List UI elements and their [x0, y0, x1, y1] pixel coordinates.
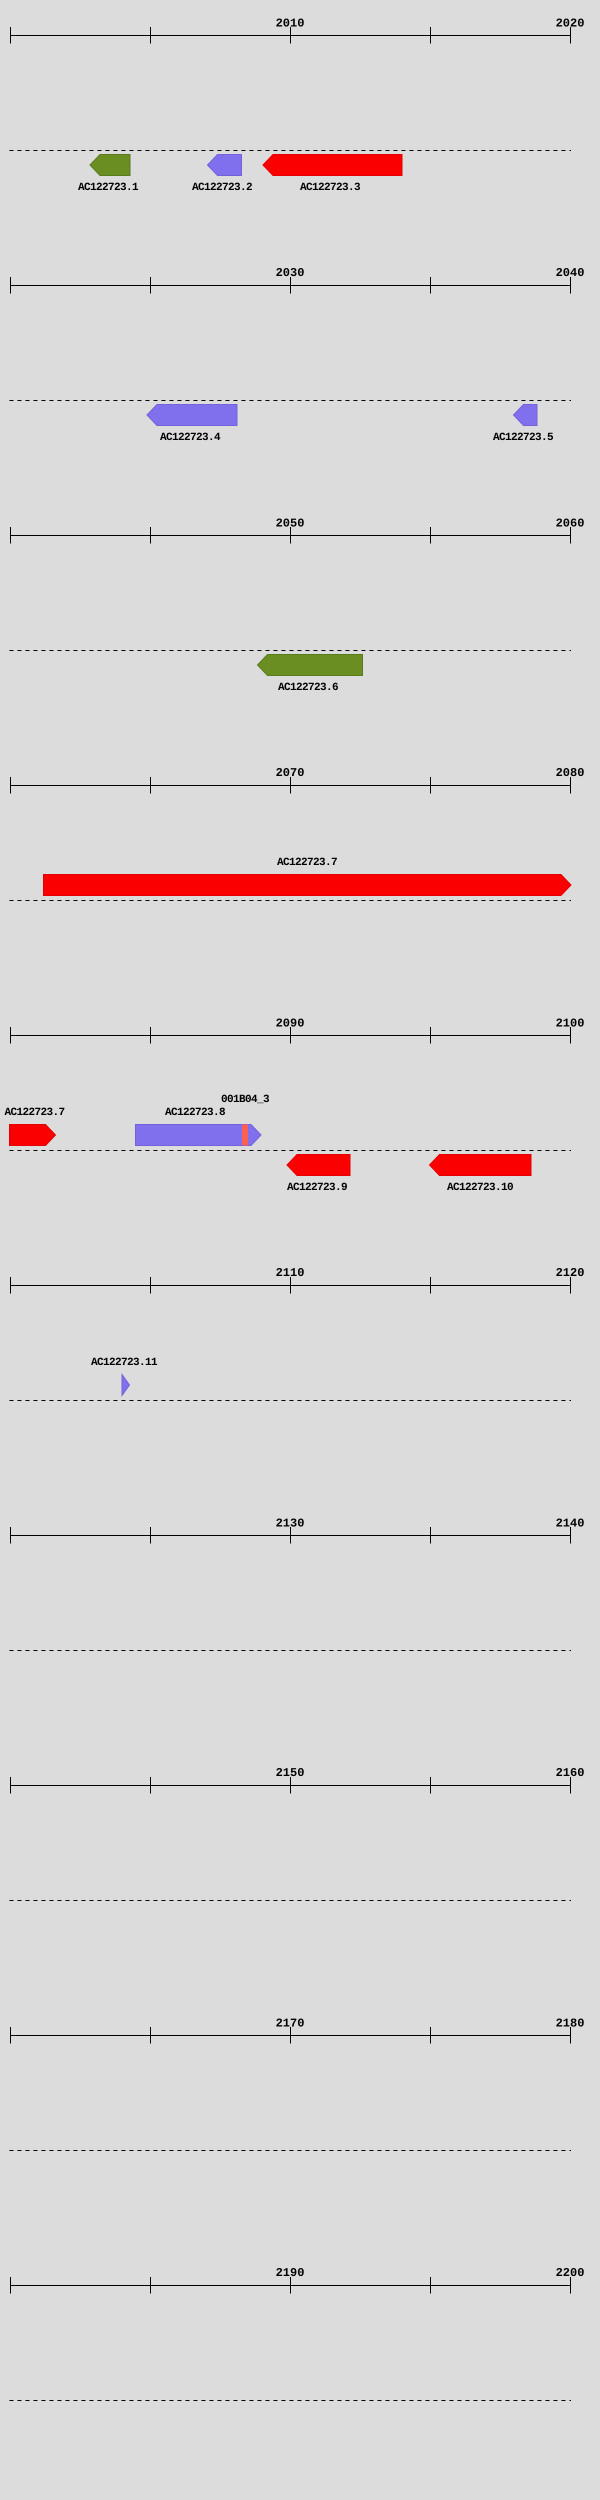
- feature AC122723.6: [258, 655, 363, 676]
- ruler panel 1: [10, 27, 571, 44]
- dashed sequence axis panel 5: [10, 1150, 572, 1152]
- svg-text:AC122723.7: AC122723.7: [4, 1107, 64, 1119]
- dashed sequence axis panel 2: [10, 400, 572, 402]
- svg-text:2170: 2170: [276, 2017, 305, 2031]
- svg-text:001B04_3: 001B04_3: [221, 1094, 270, 1106]
- svg-text:2040: 2040: [556, 266, 585, 280]
- svg-text:AC122723.6: AC122723.6: [278, 682, 338, 694]
- dashed sequence axis panel 8: [10, 1900, 572, 1902]
- feature AC122723.4: [147, 405, 237, 426]
- ruler panel 9: [10, 2027, 571, 2044]
- svg-text:2160: 2160: [556, 1766, 585, 1780]
- ruler panel 8: [10, 1777, 571, 1794]
- svg-text:2090: 2090: [276, 1017, 305, 1031]
- svg-text:2100: 2100: [556, 1017, 585, 1031]
- svg-text:2190: 2190: [276, 2266, 305, 2280]
- svg-text:2010: 2010: [276, 17, 305, 31]
- dashed sequence axis panel 3: [10, 650, 572, 652]
- feature AC122723.11: [122, 1375, 130, 1396]
- svg-text:2150: 2150: [276, 1766, 305, 1780]
- svg-text:AC122723.9: AC122723.9: [287, 1182, 347, 1194]
- svg-text:2050: 2050: [276, 517, 305, 531]
- svg-text:AC122723.7: AC122723.7: [277, 857, 337, 869]
- feature AC122723.8: [136, 1125, 262, 1146]
- svg-text:2110: 2110: [276, 1266, 305, 1280]
- svg-text:AC122723.10: AC122723.10: [447, 1182, 513, 1194]
- feature AC122723.7: [10, 1125, 56, 1146]
- dashed sequence axis panel 6: [10, 1400, 572, 1402]
- dashed sequence axis panel 7: [10, 1650, 572, 1652]
- feature AC122723.3: [263, 155, 402, 176]
- ruler panel 10: [10, 2277, 571, 2294]
- svg-text:2020: 2020: [556, 17, 585, 31]
- svg-text:2200: 2200: [556, 2266, 585, 2280]
- ruler panel 3: [10, 527, 571, 544]
- feature AC122723.7: [44, 875, 572, 896]
- svg-text:AC122723.2: AC122723.2: [192, 182, 252, 194]
- ruler panel 7: [10, 1527, 571, 1544]
- svg-text:2030: 2030: [276, 266, 305, 280]
- svg-text:AC122723.3: AC122723.3: [300, 182, 361, 194]
- svg-text:AC122723.4: AC122723.4: [160, 432, 221, 444]
- feature AC122723.9: [287, 1155, 350, 1176]
- ruler panel 2: [10, 277, 571, 294]
- feature 001B04_3: [242, 1125, 248, 1146]
- dashed sequence axis panel 10: [10, 2400, 572, 2402]
- dashed sequence axis panel 9: [10, 2150, 572, 2152]
- feature AC122723.1: [90, 155, 130, 176]
- svg-text:AC122723.11: AC122723.11: [91, 1357, 158, 1369]
- svg-text:AC122723.5: AC122723.5: [493, 432, 554, 444]
- svg-text:2070: 2070: [276, 766, 305, 780]
- svg-text:AC122723.8: AC122723.8: [165, 1107, 226, 1119]
- svg-text:2080: 2080: [556, 766, 585, 780]
- dashed sequence axis panel 4: [10, 900, 572, 902]
- svg-text:2180: 2180: [556, 2017, 585, 2031]
- svg-text:2060: 2060: [556, 517, 585, 531]
- feature AC122723.10: [430, 1155, 532, 1176]
- svg-text:AC122723.1: AC122723.1: [78, 182, 139, 194]
- svg-text:2130: 2130: [276, 1517, 305, 1531]
- ruler panel 5: [10, 1027, 571, 1044]
- feature AC122723.5: [514, 405, 538, 426]
- ruler panel 6: [10, 1277, 571, 1294]
- dashed sequence axis panel 1: [10, 150, 572, 152]
- svg-text:2120: 2120: [556, 1266, 585, 1280]
- ruler panel 4: [10, 777, 571, 794]
- svg-text:2140: 2140: [556, 1517, 585, 1531]
- feature AC122723.2: [208, 155, 242, 176]
